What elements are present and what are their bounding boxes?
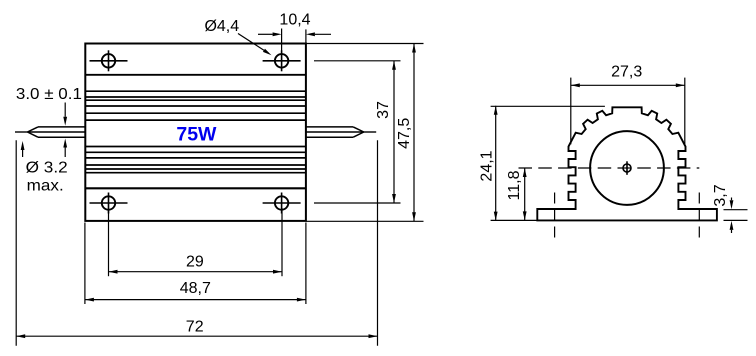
svg-text:Ø4,4: Ø4,4 — [204, 18, 239, 35]
svg-text:72: 72 — [186, 318, 204, 335]
svg-text:Ø 3.2: Ø 3.2 — [26, 160, 68, 177]
svg-text:48,7: 48,7 — [180, 280, 211, 297]
svg-text:max.: max. — [27, 178, 64, 195]
svg-text:11,8: 11,8 — [506, 170, 523, 200]
svg-text:37: 37 — [375, 101, 392, 119]
svg-text:75W: 75W — [176, 123, 217, 145]
svg-text:29: 29 — [186, 253, 204, 270]
svg-text:3.0 ± 0.1: 3.0 ± 0.1 — [16, 86, 82, 103]
svg-text:27,3: 27,3 — [611, 63, 642, 80]
svg-text:24,1: 24,1 — [479, 150, 496, 181]
svg-text:47,5: 47,5 — [396, 118, 413, 149]
svg-text:3,7: 3,7 — [712, 184, 729, 206]
svg-text:10,4: 10,4 — [279, 12, 310, 29]
